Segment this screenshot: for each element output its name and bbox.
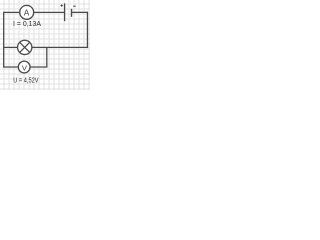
svg-text:I = 0,13A: I = 0,13A bbox=[13, 19, 42, 28]
wire top: left corner to battery left plate bbox=[4, 11, 64, 13]
lamp X diagonals bbox=[20, 42, 30, 52]
ammeter A1 circle bbox=[20, 5, 34, 19]
grid bbox=[0, 0, 90, 90]
battery cell: long plate (+) bbox=[64, 3, 66, 21]
wire voltmeter row bbox=[4, 66, 48, 68]
svg-text:U = 4,52V: U = 4,52V bbox=[13, 78, 38, 85]
wire left vertical bbox=[3, 12, 5, 68]
background bbox=[0, 0, 90, 90]
svg-text:A: A bbox=[24, 8, 30, 17]
wire right vertical bbox=[86, 12, 88, 48]
battery cell: short plate (-) bbox=[71, 9, 73, 17]
wire top right: battery right plate to right corner bbox=[72, 11, 88, 13]
wire lamp row bbox=[4, 46, 88, 48]
wire voltmeter branch vertical bbox=[46, 47, 48, 67]
lamp L1 circle bbox=[18, 40, 32, 54]
battery plus label bbox=[61, 5, 63, 7]
voltmeter V1 circle bbox=[18, 61, 30, 73]
battery minus label bbox=[73, 5, 75, 7]
